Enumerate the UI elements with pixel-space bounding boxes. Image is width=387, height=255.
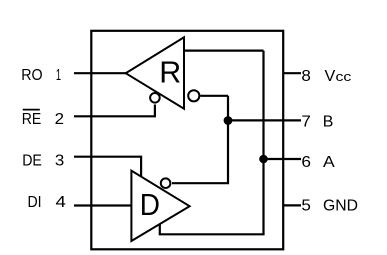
- svg-text:D: D: [140, 189, 160, 222]
- svg-text:3: 3: [55, 152, 64, 169]
- svg-text:GND: GND: [323, 198, 358, 215]
- svg-text:5: 5: [301, 198, 311, 215]
- svg-text:cc: cc: [336, 69, 352, 84]
- svg-text:6: 6: [301, 154, 311, 171]
- svg-text:DE: DE: [22, 152, 42, 169]
- svg-text:A: A: [323, 154, 335, 171]
- svg-text:V: V: [325, 68, 336, 85]
- svg-text:B: B: [323, 113, 334, 130]
- svg-text:1: 1: [56, 67, 61, 84]
- svg-text:8: 8: [301, 68, 311, 85]
- svg-text:4: 4: [56, 194, 67, 211]
- svg-text:DI: DI: [28, 194, 42, 211]
- svg-text:2: 2: [55, 111, 64, 128]
- svg-text:7: 7: [301, 113, 311, 130]
- svg-text:RO: RO: [21, 67, 42, 84]
- svg-text:R: R: [159, 55, 181, 90]
- svg-text:RE: RE: [22, 111, 42, 128]
